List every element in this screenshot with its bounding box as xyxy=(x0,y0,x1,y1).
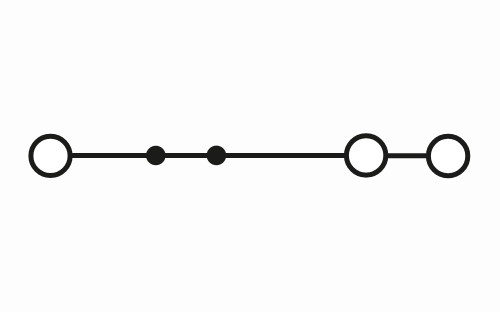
junction node 1 (filled dot) xyxy=(146,146,166,166)
wire: main horizontal conductor from left terminal to middle-right terminal xyxy=(70,153,346,158)
junction node 2 (filled dot) xyxy=(207,146,227,166)
terminal circle 3 (right outer clamp point) xyxy=(428,136,467,175)
terminal circle 1 (left clamp point) xyxy=(31,136,70,175)
terminal circle 2 (right inner clamp point) xyxy=(346,136,385,175)
wire: short link between the two right terminals xyxy=(386,153,428,158)
